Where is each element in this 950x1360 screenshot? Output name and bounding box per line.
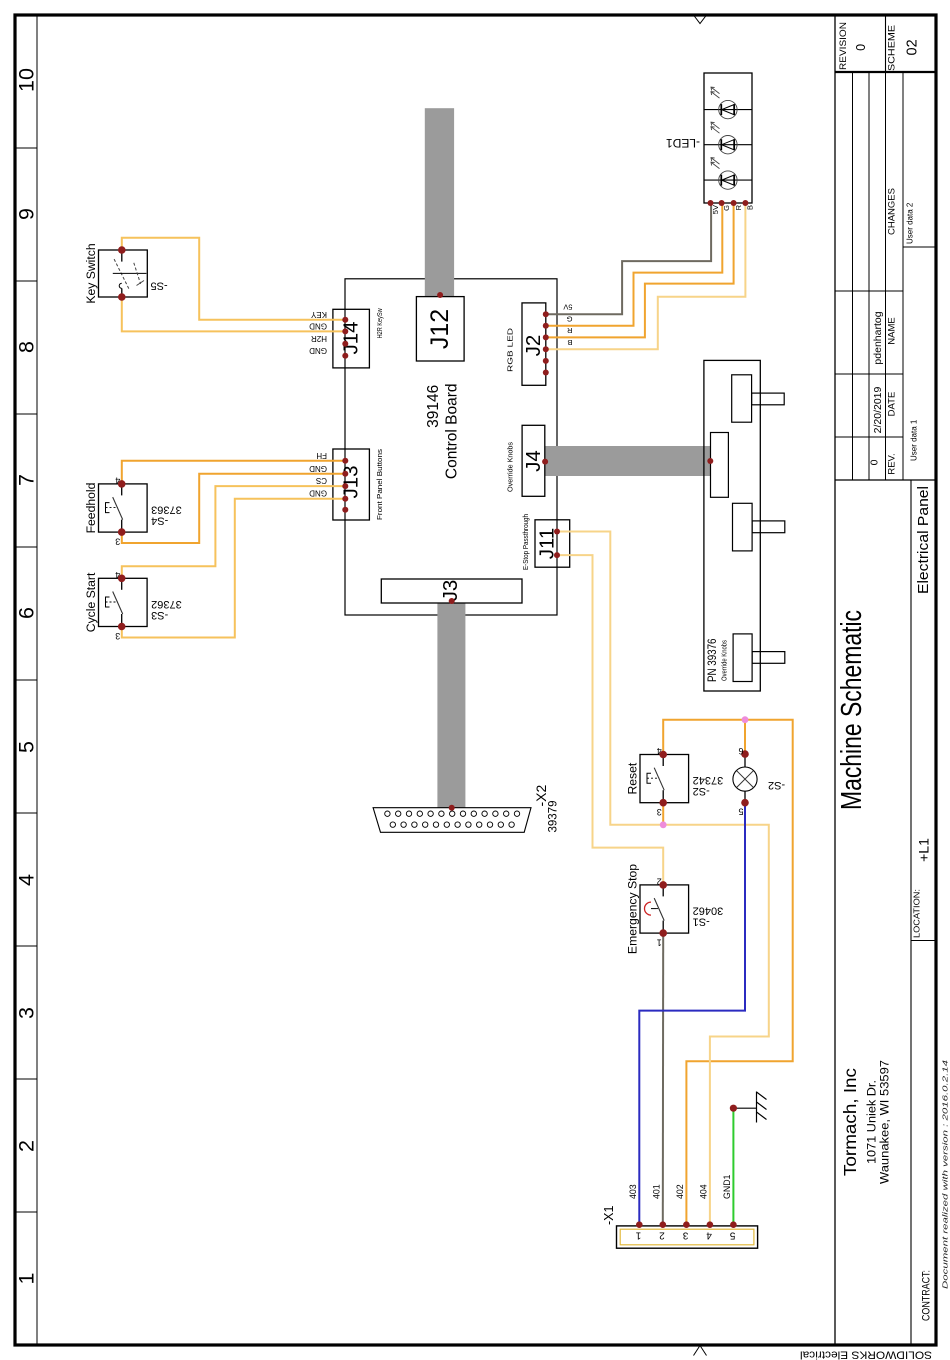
svg-text:-S4: -S4: [151, 515, 168, 527]
svg-text:H2R KeySw: H2R KeySw: [375, 308, 384, 339]
svg-text:Machine Schematic: Machine Schematic: [836, 610, 868, 810]
svg-text:10: 10: [15, 68, 39, 92]
svg-text:-X1: -X1: [602, 1206, 616, 1226]
svg-text:30462: 30462: [693, 905, 724, 917]
svg-text:39379: 39379: [548, 801, 560, 833]
svg-text:GND: GND: [309, 321, 327, 330]
svg-text:GND1: GND1: [722, 1174, 732, 1199]
svg-text:Electrical Panel: Electrical Panel: [915, 486, 932, 594]
svg-text:5: 5: [15, 741, 39, 753]
svg-text:3: 3: [115, 537, 120, 547]
svg-text:1: 1: [15, 1273, 39, 1285]
svg-text:R: R: [734, 204, 743, 210]
svg-text:3: 3: [682, 1230, 688, 1241]
svg-text:Cycle Start: Cycle Start: [84, 572, 98, 632]
svg-text:5V: 5V: [563, 303, 572, 312]
svg-text:J4: J4: [522, 450, 545, 472]
svg-text:SCHEME: SCHEME: [887, 25, 898, 71]
svg-text:Feedhold: Feedhold: [84, 483, 98, 534]
svg-text:Override Knobs: Override Knobs: [720, 640, 729, 681]
svg-text:CONTRACT:: CONTRACT:: [921, 1270, 933, 1321]
svg-text:4: 4: [706, 1230, 712, 1241]
svg-text:0: 0: [854, 44, 868, 51]
svg-text:5: 5: [738, 807, 743, 817]
svg-text:37342: 37342: [693, 774, 724, 786]
svg-text:J13: J13: [340, 465, 363, 498]
svg-text:B: B: [567, 338, 572, 347]
svg-text:-S5: -S5: [151, 280, 168, 292]
svg-text:3: 3: [657, 807, 662, 817]
svg-text:401: 401: [652, 1184, 662, 1199]
svg-text:G: G: [567, 314, 573, 323]
svg-text:B: B: [746, 205, 755, 210]
svg-text:J12: J12: [426, 309, 454, 349]
svg-text:6: 6: [738, 746, 743, 756]
svg-text:8: 8: [15, 341, 39, 353]
svg-text:3: 3: [115, 631, 120, 641]
svg-text:0: 0: [869, 459, 881, 465]
svg-text:LOCATION:: LOCATION:: [912, 889, 922, 938]
svg-text:Key Switch: Key Switch: [84, 243, 98, 303]
svg-text:-S3: -S3: [151, 609, 168, 621]
svg-text:G: G: [722, 205, 731, 211]
svg-text:39146: 39146: [425, 385, 442, 428]
svg-text:7: 7: [15, 474, 39, 486]
svg-text:-S2: -S2: [768, 779, 785, 791]
svg-text:9: 9: [15, 208, 39, 220]
svg-text:GND: GND: [309, 346, 327, 355]
svg-text:J14: J14: [340, 321, 363, 354]
svg-text:User data 2: User data 2: [906, 202, 915, 244]
svg-text:SOLIDWORKS Electrical: SOLIDWORKS Electrical: [800, 1349, 932, 1360]
svg-text:NAME: NAME: [887, 317, 898, 344]
svg-text:6: 6: [15, 607, 39, 619]
svg-text:2: 2: [15, 1140, 39, 1152]
svg-text:5: 5: [729, 1230, 735, 1241]
svg-text:User data 1: User data 1: [910, 419, 919, 461]
svg-text:Waunakee, WI 53597: Waunakee, WI 53597: [880, 1060, 892, 1184]
svg-text:J3: J3: [439, 580, 462, 602]
svg-text:Front Panel Buttons: Front Panel Buttons: [375, 449, 384, 520]
svg-text:+L1: +L1: [916, 838, 932, 862]
svg-text:Document realized with version: Document realized with version : 2016.0.…: [941, 1060, 950, 1289]
svg-text:H2R: H2R: [311, 334, 327, 343]
svg-text:GND: GND: [309, 464, 327, 473]
svg-text:J2: J2: [522, 335, 545, 357]
svg-text:37362: 37362: [151, 598, 182, 610]
svg-text:402: 402: [675, 1184, 685, 1199]
svg-text:R: R: [567, 326, 573, 335]
svg-text:KEY: KEY: [310, 310, 327, 319]
svg-text:1071 Uniek Dr.: 1071 Uniek Dr.: [867, 1080, 879, 1164]
svg-text:5V: 5V: [711, 205, 720, 214]
svg-text:RGB LED: RGB LED: [506, 328, 515, 372]
svg-text:4: 4: [15, 874, 39, 886]
svg-text:GND: GND: [309, 489, 327, 498]
svg-text:PN 39376: PN 39376: [707, 639, 719, 683]
svg-text:2/20/2019: 2/20/2019: [872, 386, 884, 433]
svg-text:Control Board: Control Board: [444, 383, 461, 479]
svg-text:REV.: REV.: [887, 453, 898, 474]
svg-text:-LED1: -LED1: [666, 136, 700, 150]
svg-text:3: 3: [15, 1007, 39, 1019]
svg-text:CHANGES: CHANGES: [887, 188, 898, 235]
svg-text:Emergency Stop: Emergency Stop: [626, 864, 640, 954]
svg-text:02: 02: [905, 39, 921, 55]
svg-text:Tormach, Inc: Tormach, Inc: [840, 1068, 860, 1176]
svg-text:E-Stop Passthrough: E-Stop Passthrough: [521, 514, 530, 570]
svg-text:Override Knobs: Override Knobs: [506, 442, 515, 492]
svg-text:-S1: -S1: [693, 916, 710, 928]
svg-text:pdenhartog: pdenhartog: [872, 311, 884, 364]
svg-text:403: 403: [628, 1184, 638, 1199]
svg-text:2: 2: [659, 1230, 665, 1241]
svg-text:404: 404: [699, 1184, 709, 1199]
svg-text:CS: CS: [316, 476, 327, 485]
svg-text:REVISION: REVISION: [838, 22, 849, 70]
svg-text:-S2: -S2: [693, 785, 710, 797]
svg-text:FH: FH: [316, 451, 327, 460]
svg-text:Reset: Reset: [626, 762, 640, 794]
svg-text:1: 1: [635, 1230, 641, 1241]
svg-text:1: 1: [657, 938, 662, 948]
svg-text:37363: 37363: [151, 504, 182, 516]
svg-text:DATE: DATE: [887, 392, 898, 417]
